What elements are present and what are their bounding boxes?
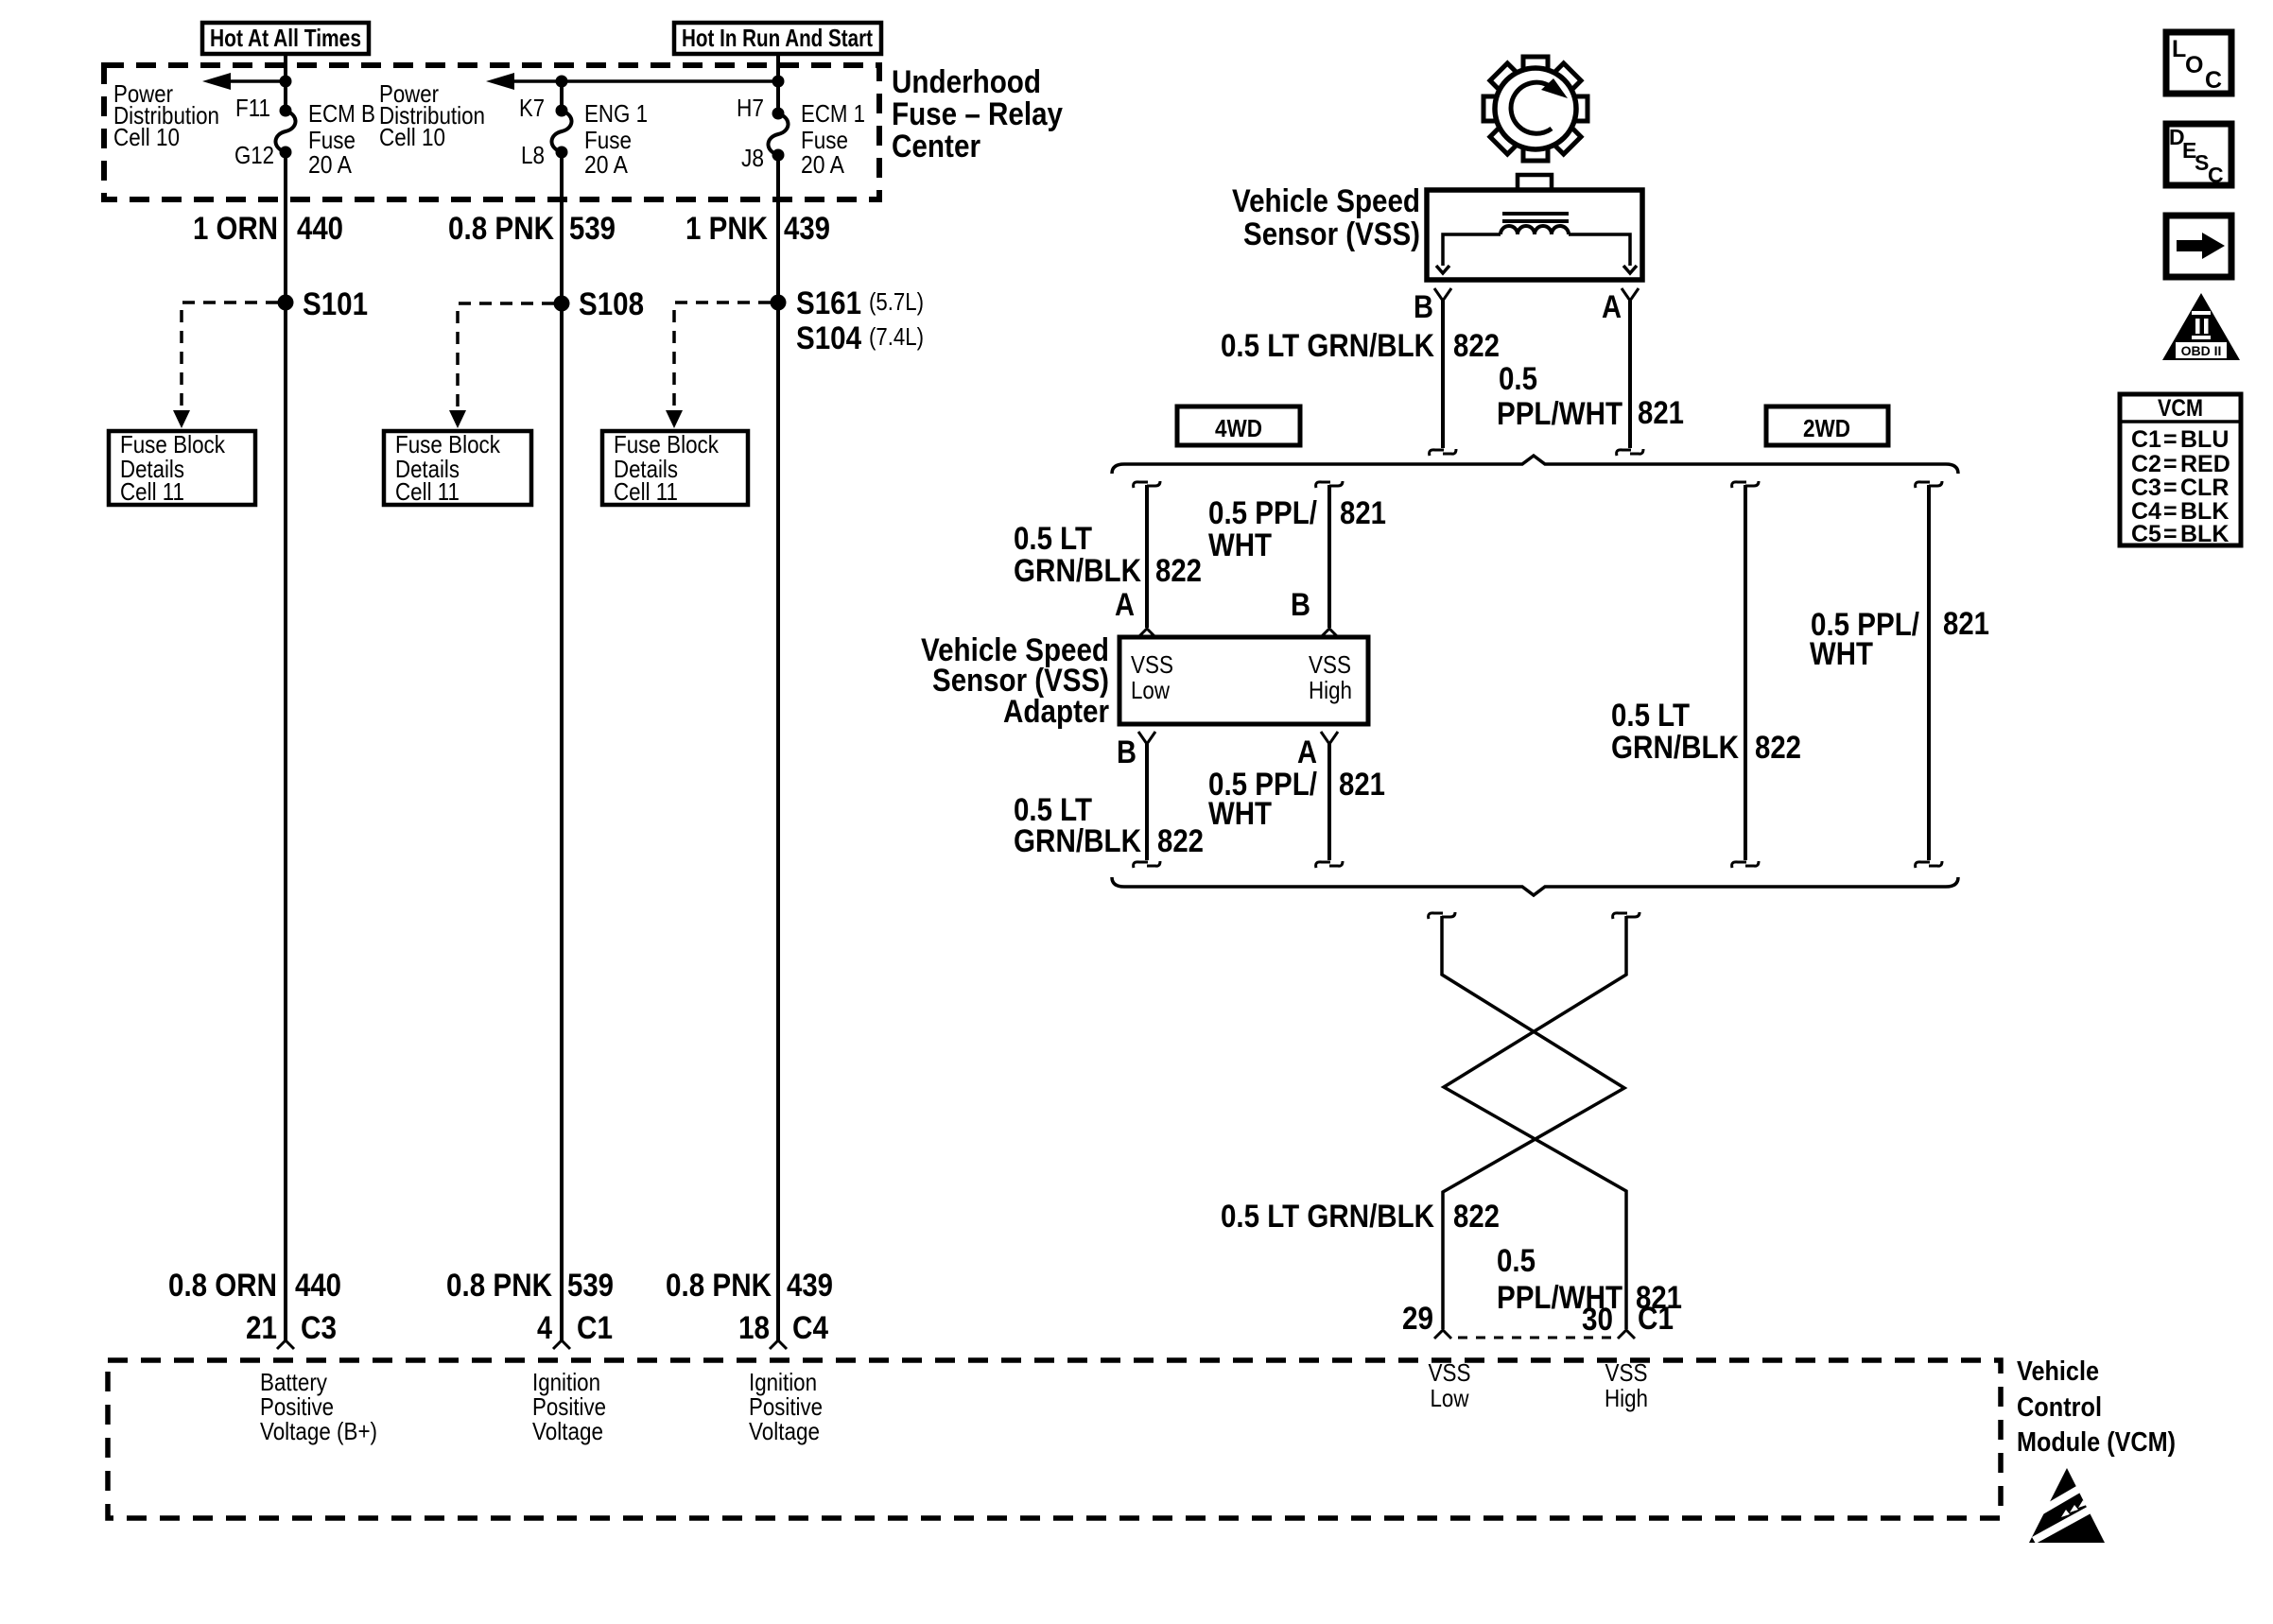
svg-text:439: 439 — [784, 211, 830, 247]
svg-text:L8: L8 — [521, 141, 545, 169]
svg-text:821: 821 — [1340, 495, 1386, 531]
splice S161 (5.7L) / S104 (7.4L) — [771, 295, 787, 311]
svg-text:VSS: VSS — [1309, 650, 1351, 679]
VSS pickup coil core — [1502, 214, 1569, 221]
label Vehicle Speed Sensor (VSS) Adapter — [921, 632, 1109, 730]
wire label 0.5 LT GRN/BLK 822 (4WD upper) — [1014, 521, 1202, 589]
svg-text:0.5 LT: 0.5 LT — [1014, 521, 1092, 557]
svg-text:K7: K7 — [519, 94, 545, 122]
svg-text:S108: S108 — [579, 286, 644, 322]
svg-text:ENG 1: ENG 1 — [584, 99, 648, 128]
arrow feed left (ignition feed) — [486, 73, 778, 90]
svg-text:Sensor (VSS): Sensor (VSS) — [1243, 216, 1420, 252]
wire 439 (ignition feed to VCM) — [776, 155, 780, 1340]
label box 4WD — [1177, 406, 1300, 445]
svg-text:822: 822 — [1453, 328, 1500, 364]
dashed branch from S108 to fuse block details — [449, 303, 554, 428]
wire label 0.8 PNK 539 — [448, 211, 616, 247]
junction node at ECM B feed — [280, 76, 292, 88]
svg-text:C1=BLU: C1=BLU — [2131, 426, 2229, 453]
svg-text:0.5 LT: 0.5 LT — [1611, 698, 1690, 734]
reluctor tone wheel (gear with rotation arrow) — [1484, 57, 1588, 161]
junction node at ECM 1 feed — [772, 76, 785, 88]
svg-text:0.5: 0.5 — [1497, 1243, 1536, 1279]
label box Hot At All Times — [202, 23, 369, 54]
VSS internal lead to pin B — [1436, 234, 1501, 273]
wire 822 from VSS pin B — [1430, 301, 1456, 456]
pin A of adapter (bottom right) — [1297, 732, 1338, 770]
svg-text:Cell 11: Cell 11 — [614, 477, 678, 506]
wire 821 to VCM (twisted pair) — [1444, 912, 1640, 1339]
label VSS High — [1605, 1358, 1648, 1412]
svg-text:C: C — [2208, 163, 2224, 187]
dashed branch from S101 to fuse block details — [173, 302, 278, 428]
wire label 0.5 PPL/ 821 WHT (4WD upper) — [1208, 495, 1386, 563]
svg-text:440: 440 — [295, 1268, 341, 1304]
wire label 1 ORN 440 — [193, 211, 343, 247]
arrow feed left (battery feed) — [202, 73, 286, 90]
underhood fuse-relay center dashed box — [104, 65, 879, 199]
svg-text:Cell 10: Cell 10 — [113, 123, 180, 151]
wire label 1 PNK 439 — [685, 211, 830, 247]
label Power Distribution Cell 10 (left) — [113, 79, 219, 151]
wire 822 to VCM (twisted pair) — [1429, 912, 1624, 1339]
label Battery Positive Voltage (B+) — [260, 1368, 377, 1445]
wire label 0.8 PNK 439 — [666, 1268, 833, 1304]
vehicle control module dashed box — [108, 1360, 2001, 1518]
wire from arrow line to fuse ENG 1 — [556, 76, 568, 88]
svg-text:Voltage: Voltage — [532, 1417, 603, 1445]
wire 822 (4WD branch lower) — [1134, 744, 1160, 868]
svg-text:18: 18 — [738, 1310, 770, 1346]
pin 4 C1 at VCM — [537, 1310, 613, 1349]
wire label 0.5 PPL/ 821 WHT (2WD) — [1810, 606, 1989, 672]
svg-text:VSS: VSS — [1605, 1358, 1648, 1387]
svg-text:1 ORN: 1 ORN — [193, 211, 278, 247]
svg-text:21: 21 — [246, 1310, 277, 1346]
fuse block details box 1 — [109, 430, 255, 506]
vehicle speed sensor (VSS) box — [1427, 175, 1642, 280]
svg-text:822: 822 — [1155, 553, 1202, 589]
svg-text:20 A: 20 A — [308, 150, 353, 179]
wire label 0.5 LT GRN/BLK 822 (to VCM) — [1221, 1199, 1500, 1235]
svg-text:C1: C1 — [577, 1310, 613, 1346]
svg-text:A: A — [1115, 587, 1135, 623]
svg-text:VSS: VSS — [1429, 1358, 1471, 1387]
VSS pickup coil — [1501, 226, 1569, 234]
svg-text:WHT: WHT — [1810, 636, 1873, 672]
svg-text:1 PNK: 1 PNK — [685, 211, 768, 247]
svg-text:OBD II: OBD II — [2181, 343, 2222, 358]
svg-text:Cell 10: Cell 10 — [379, 123, 445, 151]
svg-text:Cell 11: Cell 11 — [120, 477, 184, 506]
svg-text:539: 539 — [569, 211, 616, 247]
forward arrow icon — [2166, 216, 2231, 277]
svg-text:822: 822 — [1755, 730, 1801, 766]
svg-text:B: B — [1414, 289, 1433, 325]
dashed branch from S161 to fuse block details — [666, 302, 771, 428]
svg-text:GRN/BLK: GRN/BLK — [1014, 823, 1141, 859]
label Vehicle Control Module (VCM) — [2017, 1356, 2176, 1458]
fuse ECM 1 20A — [768, 108, 788, 162]
svg-text:Voltage: Voltage — [749, 1417, 820, 1445]
svg-text:C4: C4 — [792, 1310, 828, 1346]
wire label 0.5 LT GRN/BLK 822 — [1221, 328, 1500, 364]
svg-text:Control: Control — [2017, 1392, 2102, 1423]
svg-text:30: 30 — [1582, 1302, 1613, 1338]
fuse block details box 2 — [384, 430, 531, 506]
svg-text:High: High — [1309, 676, 1352, 704]
VSS internal lead to pin A — [1569, 234, 1637, 273]
DESC reference icon — [2166, 124, 2231, 187]
svg-text:0.5 LT GRN/BLK: 0.5 LT GRN/BLK — [1221, 328, 1434, 364]
wire 821 from VSS pin A — [1617, 301, 1643, 456]
svg-text:ECM 1: ECM 1 — [801, 99, 865, 128]
svg-text:Vehicle Speed: Vehicle Speed — [1232, 183, 1420, 219]
label ECM 1 Fuse 20 A — [801, 99, 865, 179]
svg-text:0.5: 0.5 — [1499, 361, 1537, 397]
label Underhood Fuse-Relay Center — [892, 64, 1063, 164]
pin B of VSS — [1414, 288, 1451, 325]
svg-text:H7: H7 — [737, 94, 764, 122]
LOC reference icon — [2166, 32, 2231, 94]
pin B of adapter (bottom left) — [1117, 732, 1155, 770]
svg-text:G12: G12 — [234, 141, 274, 169]
svg-text:0.5 PPL/: 0.5 PPL/ — [1208, 495, 1317, 531]
pin 30 C1 at VCM — [1582, 1301, 1674, 1338]
wire label 0.8 ORN 440 — [168, 1268, 341, 1304]
OBD II triangle icon — [2162, 293, 2240, 360]
wire label 0.5 PPL/WHT 821 — [1497, 361, 1684, 432]
svg-text:821: 821 — [1339, 767, 1385, 803]
svg-text:Center: Center — [892, 129, 980, 164]
vehicle speed sensor adapter box — [1119, 637, 1368, 724]
svg-text:0.5 LT GRN/BLK: 0.5 LT GRN/BLK — [1221, 1199, 1434, 1235]
svg-text:4WD: 4WD — [1215, 414, 1262, 442]
svg-text:B: B — [1117, 734, 1136, 770]
wire 821 (4WD branch upper) — [1316, 481, 1343, 637]
svg-text:Module (VCM): Module (VCM) — [2017, 1427, 2176, 1458]
wire 440 (battery feed to VCM) — [284, 152, 287, 1340]
svg-text:439: 439 — [787, 1268, 833, 1304]
svg-text:29: 29 — [1402, 1301, 1433, 1337]
fuse ECM B 20A — [275, 105, 295, 159]
brace upper (splits to 4WD / 2WD) — [1112, 456, 1958, 474]
wire 539 (ignition feed to VCM) — [560, 152, 564, 1340]
svg-text:539: 539 — [567, 1268, 614, 1304]
svg-text:Vehicle: Vehicle — [2017, 1356, 2099, 1387]
svg-text:Voltage (B+): Voltage (B+) — [260, 1417, 377, 1445]
svg-text:PPL/WHT: PPL/WHT — [1497, 396, 1622, 432]
svg-text:Fuse – Relay: Fuse – Relay — [892, 96, 1063, 132]
wire label 0.5 PPL/WHT 821 (to VCM) — [1497, 1243, 1682, 1316]
wire label 0.5 LT GRN/BLK 822 (4WD lower) — [1014, 792, 1204, 859]
svg-text:WHT: WHT — [1208, 527, 1272, 563]
wire label 0.5 LT GRN/BLK 822 (2WD) — [1611, 698, 1801, 766]
svg-text:Low: Low — [1431, 1384, 1469, 1412]
svg-text:Hot At All Times: Hot At All Times — [210, 24, 361, 52]
svg-text:GRN/BLK: GRN/BLK — [1611, 730, 1739, 766]
svg-text:822: 822 — [1157, 823, 1204, 859]
svg-text:VSS: VSS — [1131, 650, 1173, 679]
svg-text:S104: S104 — [796, 320, 861, 356]
svg-text:S161: S161 — [796, 285, 861, 321]
svg-text:J8: J8 — [741, 144, 764, 172]
wire 821 (4WD branch lower) — [1316, 744, 1343, 868]
svg-text:S101: S101 — [303, 286, 368, 322]
svg-text:Low: Low — [1131, 676, 1170, 704]
svg-text:0.8 PNK: 0.8 PNK — [448, 211, 554, 247]
svg-text:WHT: WHT — [1208, 796, 1272, 832]
fuse ENG 1 20A — [551, 105, 571, 159]
svg-text:Hot In Run And Start: Hot In Run And Start — [682, 24, 873, 52]
svg-text:0.8 ORN: 0.8 ORN — [168, 1268, 277, 1304]
svg-text:ECM B: ECM B — [308, 99, 375, 128]
wire 821 (2WD branch) — [1916, 481, 1942, 868]
svg-text:20 A: 20 A — [801, 150, 845, 179]
svg-text:C3: C3 — [301, 1310, 337, 1346]
pin 21 C3 at VCM — [246, 1310, 337, 1349]
VCM connector legend box — [2120, 394, 2241, 547]
svg-text:L: L — [2172, 36, 2186, 62]
svg-text:0.8 PNK: 0.8 PNK — [446, 1268, 552, 1304]
svg-text:0.8 PNK: 0.8 PNK — [666, 1268, 772, 1304]
dashed connector face line between pins 29 and 30 — [1458, 1337, 1619, 1339]
svg-text:C2=RED: C2=RED — [2131, 451, 2230, 477]
label Ignition Positive Voltage (pin 4) — [532, 1368, 606, 1445]
svg-text:C: C — [2205, 67, 2222, 94]
svg-text:(7.4L): (7.4L) — [869, 322, 924, 351]
pin 18 C4 at VCM — [738, 1310, 828, 1349]
svg-text:20 A: 20 A — [584, 150, 629, 179]
svg-text:2WD: 2WD — [1803, 414, 1850, 442]
svg-text:O: O — [2185, 52, 2203, 78]
svg-text:Underhood: Underhood — [892, 64, 1041, 100]
svg-text:4: 4 — [537, 1310, 552, 1346]
label ENG 1 Fuse 20 A — [584, 99, 648, 179]
svg-text:VCM: VCM — [2158, 395, 2203, 422]
svg-text:A: A — [1602, 289, 1622, 325]
svg-text:Cell 11: Cell 11 — [395, 477, 460, 506]
splice S108 — [554, 296, 570, 312]
wire label 0.8 PNK 539 — [446, 1268, 614, 1304]
label ECM B Fuse 20 A — [308, 99, 375, 179]
splice S101 — [278, 295, 294, 311]
label Vehicle Speed Sensor (VSS) — [1232, 183, 1420, 252]
ESD static sensitive icon — [2029, 1468, 2105, 1544]
wire 822 (4WD branch upper) — [1134, 481, 1160, 637]
svg-text:C3=CLR: C3=CLR — [2131, 475, 2229, 501]
svg-text:(5.7L): (5.7L) — [869, 287, 924, 316]
svg-text:Adapter: Adapter — [1003, 694, 1109, 730]
wire from Hot At All Times to fuse ECM B — [284, 54, 287, 111]
svg-text:C1: C1 — [1638, 1301, 1674, 1337]
svg-text:440: 440 — [297, 211, 343, 247]
label Ignition Positive Voltage (pin 18) — [749, 1368, 823, 1445]
svg-text:B: B — [1291, 587, 1310, 623]
label VSS Low — [1429, 1358, 1471, 1412]
label box Hot In Run And Start — [674, 23, 881, 54]
svg-text:C5=BLK: C5=BLK — [2131, 521, 2229, 547]
brace lower (rejoins to VCM) — [1112, 877, 1958, 895]
pin A of VSS — [1602, 288, 1639, 325]
svg-text:GRN/BLK: GRN/BLK — [1014, 553, 1141, 589]
fuse block details box 3 — [602, 430, 748, 506]
svg-text:A: A — [1297, 734, 1317, 770]
svg-text:F11: F11 — [235, 94, 270, 122]
wire 822 (2WD branch) — [1732, 481, 1759, 868]
label box 2WD — [1766, 406, 1888, 445]
wire label 0.5 PPL/ 821 WHT (4WD lower) — [1208, 767, 1385, 832]
svg-text:821: 821 — [1638, 395, 1684, 431]
svg-text:821: 821 — [1943, 606, 1989, 642]
label Power Distribution Cell 10 (middle) — [379, 79, 485, 151]
wire from Hot In Run And Start to fuse ECM 1 — [776, 54, 780, 113]
svg-text:822: 822 — [1453, 1199, 1500, 1235]
svg-text:High: High — [1605, 1384, 1648, 1412]
